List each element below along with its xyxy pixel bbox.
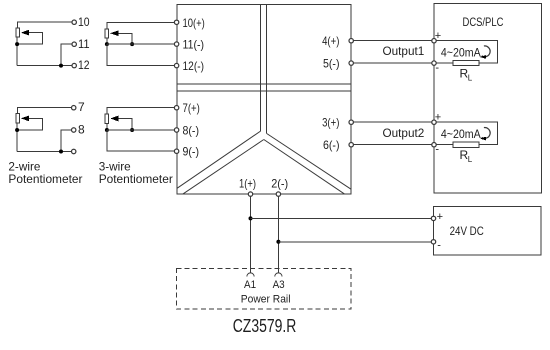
- svg-text:10: 10: [78, 15, 90, 29]
- isolation barrier horizontal divider (double line): [177, 84, 351, 91]
- socket arc A3: [275, 273, 282, 277]
- resistor RL2: [453, 142, 479, 147]
- svg-text:4~20mA: 4~20mA: [441, 45, 481, 59]
- svg-text:Potentiometer: Potentiometer: [8, 172, 82, 186]
- terminal circle 9(-) on block: [174, 149, 178, 153]
- 24V DC box: [434, 207, 542, 255]
- potentiometer P3 (3-wire, top): [105, 22, 174, 65]
- isolation barrier vertical divider (double line): [261, 5, 267, 134]
- svg-text:9(-): 9(-): [183, 145, 200, 159]
- terminal circle 2(-): [276, 192, 280, 196]
- terminal circle 12(-) on block: [174, 63, 178, 67]
- svg-text:-: -: [437, 239, 441, 251]
- current loop arrow 2: [480, 128, 490, 141]
- load loop 2 wires: [436, 122, 497, 145]
- terminal circle 24V plus: [431, 216, 435, 220]
- terminal circle DCS out1 minus: [432, 61, 436, 65]
- svg-text:5(-): 5(-): [323, 57, 340, 71]
- svg-text:Potentiometer: Potentiometer: [99, 172, 173, 186]
- svg-text:10(+): 10(+): [183, 16, 205, 30]
- isolation barrier right diagonal (double line): [264, 134, 351, 195]
- svg-text:4~20mA: 4~20mA: [441, 127, 481, 141]
- DCS/PLC box: [434, 4, 542, 193]
- isolation barrier left diagonal (double line): [177, 131, 264, 194]
- terminal circle 8: [72, 128, 76, 132]
- resistor RL1: [453, 60, 479, 65]
- terminal circle 12: [72, 63, 76, 67]
- power rail dashed box: [176, 269, 351, 310]
- terminal circle 10(+) on block: [174, 20, 178, 24]
- wire output2 plus: [353, 121, 432, 123]
- svg-text:6(-): 6(-): [323, 138, 340, 152]
- load loop 1 wires: [436, 41, 497, 63]
- svg-text:4(+): 4(+): [322, 34, 339, 48]
- terminal circle 11: [72, 42, 76, 46]
- wire output1 plus: [353, 40, 432, 42]
- potentiometer P2 (2-wire, bottom): [15, 108, 72, 152]
- svg-text:Output1: Output1: [383, 44, 425, 58]
- svg-text:-: -: [435, 62, 439, 74]
- terminal circle DCS out2 plus: [432, 120, 436, 124]
- wire power plus vertical: [250, 196, 252, 273]
- wire terminal 11 jumper to 12: [59, 44, 72, 67]
- junction dot power plus: [249, 216, 253, 220]
- svg-text:1(+): 1(+): [239, 177, 256, 191]
- terminal circle 7: [72, 106, 76, 110]
- svg-text:+: +: [437, 211, 443, 223]
- current loop arrow 1: [480, 46, 490, 59]
- potentiometer P4 (3-wire, bottom): [105, 108, 174, 152]
- terminal circle 4(+): [349, 39, 353, 43]
- label RL1: [460, 67, 473, 83]
- wire output2 minus: [353, 144, 432, 146]
- terminal circle 11(-) on block: [174, 42, 178, 46]
- terminal circle 5(-): [349, 61, 353, 65]
- svg-text:2(-): 2(-): [271, 177, 288, 191]
- wire to 24V minus: [278, 241, 431, 243]
- svg-text:12: 12: [78, 58, 90, 72]
- svg-text:12(-): 12(-): [183, 59, 205, 73]
- svg-text:Output2: Output2: [383, 126, 425, 140]
- wire to 24V plus: [251, 217, 432, 219]
- svg-text:DCS/PLC: DCS/PLC: [463, 15, 504, 29]
- terminal circle 10: [72, 20, 76, 24]
- svg-text:8(-): 8(-): [183, 124, 200, 138]
- svg-text:Power Rail: Power Rail: [241, 294, 291, 306]
- svg-text:11(-): 11(-): [183, 38, 205, 52]
- terminal circle 7(+) on block: [174, 106, 178, 110]
- terminal circle DCS out1 plus: [432, 39, 436, 43]
- svg-text:7: 7: [78, 100, 85, 114]
- terminal circle 3(+): [349, 120, 353, 124]
- svg-text:3(+): 3(+): [322, 116, 339, 130]
- terminal circle DCS out2 minus: [432, 143, 436, 147]
- wire power minus vertical: [277, 196, 279, 273]
- junction dot power minus: [276, 240, 280, 244]
- svg-text:24V DC: 24V DC: [450, 224, 484, 238]
- terminal circle 6(-): [349, 143, 353, 147]
- wire output1 minus: [353, 62, 432, 64]
- terminal circle 24V minus: [431, 240, 435, 244]
- svg-text:L: L: [468, 155, 473, 164]
- label RL2: [460, 148, 473, 164]
- svg-text:8: 8: [78, 123, 85, 137]
- svg-text:A3: A3: [273, 279, 285, 291]
- svg-text:11: 11: [78, 37, 90, 51]
- svg-text:CZ3579.R: CZ3579.R: [233, 316, 297, 336]
- terminal circle unlabeled: [72, 149, 76, 153]
- terminal circle 8(-) on block: [174, 128, 178, 132]
- isolator block body: [177, 5, 351, 195]
- svg-text:A1: A1: [244, 279, 256, 291]
- potentiometer P1 (2-wire, top): [15, 22, 72, 65]
- socket arc A1: [247, 273, 254, 277]
- wire terminal 8 jumper to bottom: [59, 130, 72, 154]
- terminal circle 1(+): [248, 192, 252, 196]
- svg-text:7(+): 7(+): [183, 101, 200, 115]
- svg-text:L: L: [468, 74, 473, 83]
